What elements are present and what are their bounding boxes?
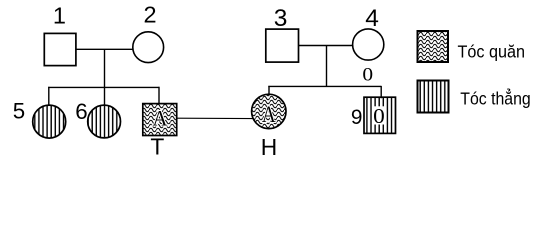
svg-text:1: 1: [53, 3, 66, 29]
wire: sibship line of family 1-2: [48, 86, 159, 88]
individual 1: unaffected male square: [44, 33, 76, 65]
svg-text:9: 9: [351, 106, 363, 129]
svg-text:0: 0: [373, 104, 385, 128]
svg-text:5: 5: [13, 99, 25, 124]
svg-text:A: A: [262, 101, 276, 127]
svg-text:H: H: [261, 134, 277, 160]
wire: vertical drop from couple 3-4: [326, 46, 328, 87]
individual 4: unaffected female circle: [353, 29, 384, 60]
legend: straight hair key box: [418, 81, 449, 113]
white backing for O label: [373, 106, 385, 124]
svg-text:T: T: [150, 133, 164, 159]
wire: marriage line 3-4: [299, 45, 354, 47]
svg-text:6: 6: [75, 99, 87, 124]
svg-text:3: 3: [274, 5, 288, 32]
svg-text:4: 4: [365, 5, 379, 32]
individual 3: unaffected male square: [266, 29, 299, 62]
individual 5: straight-hair female (striped circle): [33, 105, 66, 138]
wire: vertical drop from couple 1-2 through sibship line to circle 6: [104, 49, 106, 105]
wire: drop to square 9: [380, 86, 382, 98]
wire: marriage line T-H: [177, 117, 254, 119]
wire: drop to circle H: [268, 86, 270, 95]
svg-text:A: A: [152, 106, 167, 131]
svg-text:2: 2: [144, 2, 157, 28]
individual 9: straight-hair male (striped square), blood group O: [364, 97, 396, 133]
individual 6: straight-hair female (striped circle): [88, 105, 121, 138]
svg-text:Tóc thẳng: Tóc thẳng: [460, 89, 530, 109]
individual H: curly-hair female (wavy circle), blood group A: [252, 94, 286, 128]
individual 2: unaffected female circle: [133, 32, 164, 63]
wire: marriage line 1-2: [76, 48, 133, 50]
wire: drop to circle 5: [48, 87, 50, 106]
svg-text:0: 0: [362, 65, 373, 86]
wire: sibship line of family 3-4: [268, 85, 381, 87]
svg-text:Tóc quăn: Tóc quăn: [458, 42, 525, 62]
legend: curly hair key box: [418, 31, 449, 62]
wire: drop to square T: [158, 87, 160, 104]
individual T: curly-hair male (wavy square), blood group A: [143, 104, 177, 136]
